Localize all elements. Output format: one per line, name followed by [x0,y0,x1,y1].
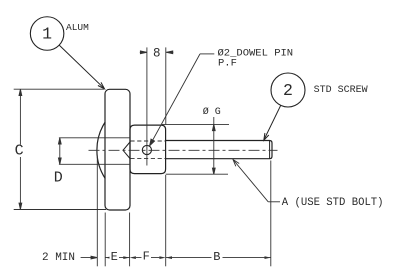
extension line shaft end [270,161,272,267]
dowel pin vertical extension line [146,47,148,165]
svg-text:8: 8 [153,46,161,60]
dim 8 right arrow [166,51,173,54]
svg-text:E: E [111,250,118,264]
leader balloon 2 [264,105,281,140]
through-hole silhouette line bottom (D extension) [59,163,130,165]
dim G top extension line [162,123,229,125]
through-hole silhouette line top (D extension) [59,137,130,139]
dim E arrows [105,256,129,259]
dim G line with arrows [212,117,215,174]
dim F arrows [130,256,166,259]
dim D line with arrows [58,138,61,165]
balloon 2 [271,73,305,107]
dim F line [136,257,160,259]
dim 2 MIN line and arrow [81,256,98,259]
extension line dome left [96,157,98,266]
screw shank [166,141,272,159]
dome arc on knob face [97,122,105,179]
leader A [233,160,280,202]
hidden hole line bottom [130,158,165,160]
dim B text [212,251,223,264]
dim C top extension line [14,88,104,90]
dim E line [105,257,129,259]
svg-text:Ø G: Ø G [203,106,221,118]
dim C line with arrows [19,89,22,209]
hidden hole line top [130,140,165,142]
flange (knob head) [105,89,130,210]
svg-text:STD SCREW: STD SCREW [314,85,368,96]
dim B arrows [166,256,271,259]
dim C text [14,145,26,158]
hub right extension line (top, for dim 8) [165,47,167,124]
svg-text:A (USE STD BOLT): A (USE STD BOLT) [282,197,384,209]
drill point cone in flange [123,142,130,160]
leader balloon 1 [59,45,104,89]
svg-text:P.F: P.F [218,57,237,69]
extension line hub right [165,175,167,266]
screw tip face line [269,141,271,159]
svg-text:F: F [143,250,150,264]
svg-text:2: 2 [283,81,293,100]
svg-text:ALUM: ALUM [66,22,89,33]
dim G bottom extension line [166,173,228,175]
hub boss [130,125,166,174]
dim C bottom extension line [14,209,106,211]
dim F text [142,251,152,263]
balloon 1 [30,17,64,51]
svg-text:C: C [15,143,24,160]
extension line flange left [104,213,106,267]
horizontal center line [89,149,278,151]
extension line flange right [129,213,131,267]
svg-text:D: D [54,170,63,187]
svg-text:B: B [213,250,220,264]
svg-text:2 MIN: 2 MIN [42,252,75,264]
dim B line [166,257,271,259]
dowel pin circle [142,145,151,154]
dowel pin leader [150,54,215,146]
dim E text [110,251,120,263]
dim 8 left arrow [140,51,147,54]
svg-text:1: 1 [42,24,52,43]
